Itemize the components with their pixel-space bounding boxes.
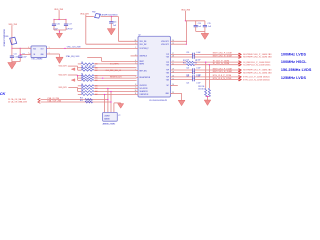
svg-text:33: 33 [195, 60, 197, 62]
svg-text:100MHz LVDS: 100MHz LVDS [281, 52, 307, 56]
svg-text:0.1uF: 0.1uF [196, 75, 200, 77]
svg-text:MGTCLK1_N_156M: MGTCLK1_N_156M [213, 71, 232, 73]
svg-text:BLM18AG121SN1D: BLM18AG121SN1D [2, 30, 5, 48]
svg-text:C16: C16 [57, 23, 60, 25]
svg-text:VDD: VDD [33, 49, 36, 51]
svg-text:C20: C20 [186, 52, 189, 54]
svg-text:.1uF: .1uF [208, 26, 211, 28]
svg-text:Y2: Y2 [118, 115, 120, 117]
svg-text:R15 R16: R15 R16 [198, 86, 204, 88]
svg-text:0.1uF: 0.1uF [196, 52, 200, 54]
svg-text:RESETN_3V3: RESETN_3V3 [110, 77, 122, 79]
svg-text:VDD_IN2: VDD_IN2 [140, 44, 147, 46]
svg-text:Y3P: Y3P [166, 70, 169, 72]
svg-text:VDD_3V3: VDD_3V3 [9, 24, 17, 26]
svg-text:VDDOUT1: VDDOUT1 [161, 41, 169, 43]
svg-text:ETH_CLK_P_125M: ETH_CLK_P_125M [213, 75, 232, 77]
svg-text:ABM3B_25MHZ: ABM3B_25MHZ [103, 123, 117, 126]
svg-text:R1: R1 [81, 76, 83, 78]
svg-text:Y2P: Y2P [166, 62, 169, 64]
svg-text:VDDOUT2: VDDOUT2 [161, 44, 169, 46]
svg-text:VDD_3V3: VDD_3V3 [59, 87, 67, 89]
svg-text:R1: R1 [81, 90, 83, 92]
svg-text:FB1: FB1 [5, 36, 8, 38]
svg-text:VDD_3V3: VDD_3V3 [80, 14, 88, 16]
svg-text:VDD_IN1: VDD_IN1 [140, 41, 147, 43]
svg-text:XOUT/FB_P: XOUT/FB_P [140, 48, 149, 50]
svg-text:OSC_CLK_25M: OSC_CLK_25M [67, 47, 81, 49]
svg-text:33: 33 [195, 62, 197, 64]
svg-text:GND: GND [41, 54, 44, 56]
svg-text:OSC_25MHZ: OSC_25MHZ [31, 59, 43, 61]
svg-text:MGTCLK0_N_100M: MGTCLK0_N_100M [213, 55, 232, 57]
svg-text:C25: C25 [186, 82, 189, 84]
svg-text:C11: C11 [14, 54, 17, 56]
svg-text:125MHz LVDS: 125MHz LVDS [281, 76, 307, 80]
svg-text:R1: R1 [81, 66, 83, 68]
svg-text:0.1uF: 0.1uF [23, 57, 27, 59]
svg-text:25MHZ: 25MHZ [104, 115, 109, 117]
svg-text:156.25MHz LVDS: 156.25MHz LVDS [281, 68, 312, 72]
svg-text:R11: R11 [183, 62, 186, 64]
svg-text:R1: R1 [81, 93, 83, 95]
svg-text:CLK_REF_SEL_LV: CLK_REF_SEL_LV [106, 70, 122, 72]
svg-text:ETH_CLK_N_125M: ETH_CLK_N_125M [213, 78, 232, 80]
svg-text:0.1uF: 0.1uF [15, 57, 19, 59]
svg-text:100 100: 100 100 [198, 88, 204, 90]
svg-text:R10: R10 [183, 60, 186, 62]
svg-text:XTAL_IN_25M: XTAL_IN_25M [47, 97, 59, 100]
svg-text:XTAL_FB_LVDS: XTAL_FB_LVDS [66, 55, 80, 58]
svg-text:26: 26 [135, 40, 137, 42]
svg-text:R1: R1 [81, 78, 83, 80]
svg-text:C15: C15 [208, 23, 211, 25]
svg-text:VDD_3V3: VDD_3V3 [59, 75, 67, 77]
svg-text:OE: OE [33, 54, 35, 56]
svg-text:CE/SPOF: CE/SPOF [140, 85, 147, 87]
svg-text:XTAL_OUT_25M: XTAL_OUT_25M [47, 100, 61, 103]
svg-text:C24: C24 [186, 75, 189, 77]
svg-text:R1: R1 [81, 74, 83, 76]
svg-text:VDD_3V3: VDD_3V3 [59, 66, 67, 68]
svg-text:SI_REFCLK_N_100M 2B3C: SI_REFCLK_N_100M 2B3C [243, 64, 271, 66]
svg-text:0.1uF: 0.1uF [196, 68, 200, 70]
svg-text:XIN/FB_N: XIN/FB_N [140, 56, 148, 58]
svg-text:R1: R1 [81, 68, 83, 70]
svg-text:R1: R1 [81, 87, 83, 89]
svg-text:MGTREFCLK1_N_156M 2B3: MGTREFCLK1_N_156M 2B3 [243, 72, 272, 74]
svg-text:MGTREFCLK0_N_100M 2B3: MGTREFCLK0_N_100M 2B3 [243, 57, 272, 59]
svg-text:U2: U2 [138, 34, 140, 36]
svg-text:100MHz HSCL: 100MHz HSCL [281, 60, 307, 64]
svg-text:Y4P: Y4P [166, 77, 169, 79]
svg-text:SI_CLK_N_100M: SI_CLK_N_100M [213, 63, 230, 65]
svg-text:XO_REFN: XO_REFN [110, 63, 119, 65]
svg-text:VDD_3V3: VDD_3V3 [181, 10, 191, 12]
svg-text:CDCE62005RGZR: CDCE62005RGZR [149, 100, 168, 102]
svg-text:Y1P: Y1P [166, 54, 169, 56]
svg-text:REFP: REFP [140, 61, 144, 63]
svg-text:C14: C14 [198, 23, 201, 25]
svg-text:25 CA_OE_N8A 25M: 25 CA_OE_N8A 25M [8, 100, 27, 103]
svg-text:.1uF: .1uF [198, 26, 201, 28]
svg-text:SCL/SPOF: SCL/SPOF [140, 88, 148, 90]
svg-text:1uF 16V: 1uF 16V [66, 29, 73, 31]
svg-text:R15: R15 [80, 100, 83, 102]
svg-text:OUT: OUT [41, 49, 44, 51]
svg-text:47K 1% 0402: 47K 1% 0402 [85, 65, 96, 67]
svg-text:C17: C17 [69, 23, 72, 25]
svg-text:0.1uF: 0.1uF [196, 82, 200, 84]
svg-text:C22: C22 [186, 68, 189, 70]
svg-text:ETH_CLK_N_125M 2B3CD: ETH_CLK_N_125M 2B3CD [243, 79, 270, 81]
svg-text:C13: C13 [113, 21, 116, 23]
svg-text:REF_SEL: REF_SEL [140, 70, 147, 72]
svg-text:RESETN/PDN: RESETN/PDN [140, 77, 151, 79]
svg-text:FB2: FB2 [92, 12, 95, 14]
svg-text:R14: R14 [80, 98, 83, 100]
svg-text:ETH_CLK_P_125M 2B3CD: ETH_CLK_P_125M 2B3CD [243, 77, 270, 79]
svg-text:R1: R1 [81, 84, 83, 86]
svg-text:R1: R1 [81, 62, 83, 64]
